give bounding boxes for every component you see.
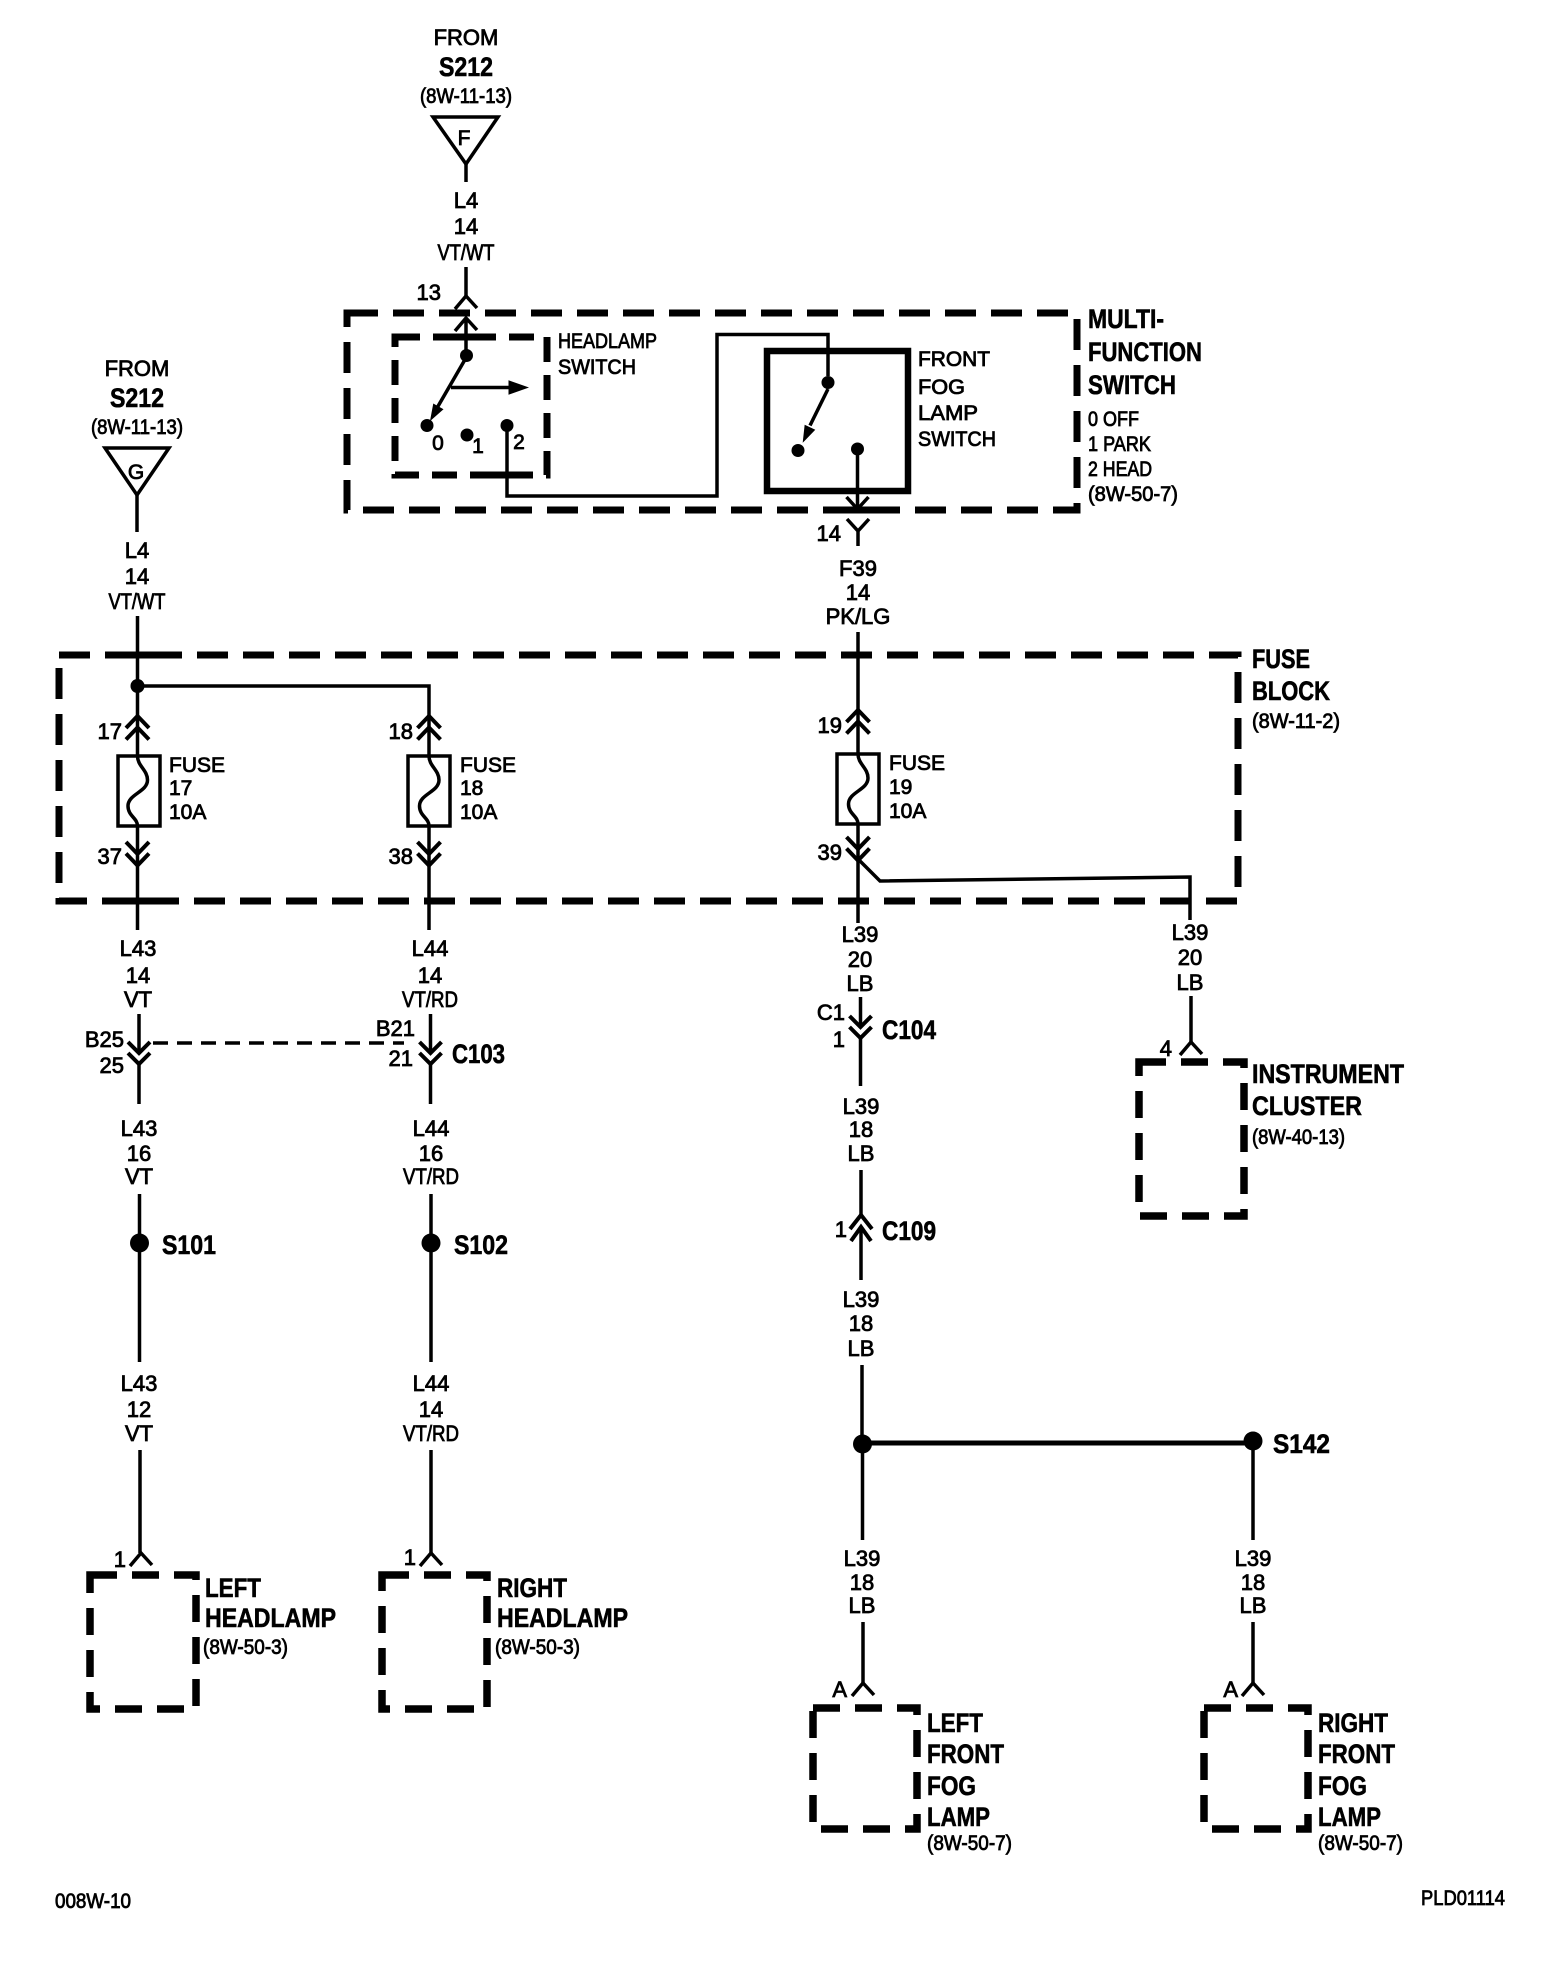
svg-text:FUSE: FUSE xyxy=(889,752,945,775)
svg-text:1: 1 xyxy=(835,1217,847,1242)
svg-text:MULTI-: MULTI- xyxy=(1088,304,1164,334)
svg-text:FROM: FROM xyxy=(434,25,499,50)
svg-text:21: 21 xyxy=(389,1046,413,1071)
right front fog lamp dashed box xyxy=(1204,1708,1308,1829)
splice S142 xyxy=(1244,1432,1263,1451)
off-page connector triangle G xyxy=(105,448,169,495)
svg-text:FOG: FOG xyxy=(918,376,965,399)
pin 13 arrowhead into switch xyxy=(455,318,477,350)
svg-text:VT/RD: VT/RD xyxy=(402,987,458,1012)
fuse cavity 18 chevrons xyxy=(418,716,441,740)
svg-text:L43: L43 xyxy=(121,1371,158,1396)
svg-text:14: 14 xyxy=(454,214,478,239)
contact 1 xyxy=(461,429,474,442)
svg-text:1: 1 xyxy=(472,435,484,458)
svg-text:LEFT: LEFT xyxy=(927,1708,983,1738)
svg-text:19: 19 xyxy=(889,776,912,799)
fuse cavity 17 chevrons xyxy=(126,716,149,740)
svg-text:FROM: FROM xyxy=(105,356,170,381)
svg-text:0: 0 xyxy=(432,432,444,455)
wire to right fog lamp xyxy=(1251,1622,1255,1683)
connector fork pin 1 (left headlamp) xyxy=(130,1553,152,1566)
svg-text:VT/WT: VT/WT xyxy=(438,240,495,265)
svg-text:LB: LB xyxy=(848,1336,875,1361)
svg-text:(8W-11-13): (8W-11-13) xyxy=(420,85,512,108)
svg-text:12: 12 xyxy=(127,1397,151,1422)
wire junction to S142 xyxy=(863,1441,1254,1446)
svg-text:FUSE: FUSE xyxy=(1252,644,1310,674)
svg-text:FRONT: FRONT xyxy=(927,1739,1004,1769)
svg-text:18: 18 xyxy=(1241,1570,1265,1595)
svg-text:17: 17 xyxy=(98,719,122,744)
svg-text:FOG: FOG xyxy=(927,1771,976,1801)
fuse F19 xyxy=(837,754,879,824)
connector C103 dashed link xyxy=(153,1041,404,1045)
wire into multi-function switch xyxy=(464,267,468,296)
svg-text:L39: L39 xyxy=(843,1287,880,1312)
fuse F18 xyxy=(408,756,450,826)
svg-text:HEADLAMP: HEADLAMP xyxy=(497,1603,628,1633)
svg-text:L4: L4 xyxy=(454,188,478,213)
wire below S101 xyxy=(138,1252,142,1362)
wire down to fuse 17 xyxy=(136,686,140,756)
svg-text:A: A xyxy=(832,1677,847,1702)
front fog lamp switch solid box xyxy=(767,351,908,491)
svg-text:C109: C109 xyxy=(882,1216,936,1246)
wire to splice junction xyxy=(860,1365,864,1436)
svg-text:INSTRUMENT: INSTRUMENT xyxy=(1252,1059,1404,1089)
multi-function switch dashed box xyxy=(347,313,1077,510)
svg-text:18: 18 xyxy=(849,1311,873,1336)
svg-text:(8W-50-3): (8W-50-3) xyxy=(495,1636,580,1659)
wire below S142 to right fog lamp xyxy=(1251,1450,1255,1540)
svg-text:L4: L4 xyxy=(125,538,149,563)
dash patch headlamp switch box top at pin 13 xyxy=(449,334,485,341)
wire below B25 xyxy=(137,1064,141,1104)
svg-text:A: A xyxy=(1223,1677,1238,1702)
right headlamp dashed box xyxy=(382,1575,487,1709)
connector pin chevrons C109 xyxy=(850,1215,872,1241)
wire to instrument cluster xyxy=(1189,996,1193,1042)
wire to left fog lamp xyxy=(861,1622,865,1683)
splice S101 xyxy=(130,1234,149,1253)
wire below fuse 18 xyxy=(427,826,431,930)
svg-text:PK/LG: PK/LG xyxy=(826,604,891,629)
wire below C109 xyxy=(859,1227,863,1280)
contact 0 xyxy=(421,419,434,432)
connector fork pin 1 (right headlamp) xyxy=(420,1553,442,1566)
wire below fuse 19 xyxy=(856,824,860,923)
left front fog lamp dashed box xyxy=(813,1708,917,1829)
svg-text:BLOCK: BLOCK xyxy=(1252,676,1330,706)
svg-text:2 HEAD: 2 HEAD xyxy=(1088,458,1152,481)
wire from contact 2 to fog lamp switch xyxy=(507,335,828,497)
dash patch fuse block bottom at left wire xyxy=(117,898,159,905)
svg-text:LB: LB xyxy=(847,971,874,996)
svg-text:10A: 10A xyxy=(889,800,926,823)
svg-text:LB: LB xyxy=(849,1593,876,1618)
svg-text:VT/RD: VT/RD xyxy=(403,1421,459,1446)
wire branch to instrument cluster feed xyxy=(860,861,1190,920)
svg-text:CLUSTER: CLUSTER xyxy=(1252,1091,1362,1121)
svg-text:LB: LB xyxy=(848,1141,875,1166)
svg-text:39: 39 xyxy=(818,840,842,865)
svg-text:SWITCH: SWITCH xyxy=(918,428,996,451)
wire to splice S101 xyxy=(138,1194,142,1235)
svg-text:18: 18 xyxy=(460,777,483,800)
wire to connector C109 xyxy=(859,1170,863,1215)
fog switch left contact xyxy=(792,444,805,457)
svg-text:14: 14 xyxy=(418,963,442,988)
svg-text:2: 2 xyxy=(513,431,525,454)
fuse block cavity 38 chevrons xyxy=(418,842,441,866)
svg-text:SWITCH: SWITCH xyxy=(558,356,636,379)
svg-text:(8W-50-7): (8W-50-7) xyxy=(1318,1832,1403,1855)
svg-text:FOG: FOG xyxy=(1318,1771,1367,1801)
svg-text:(8W-40-13): (8W-40-13) xyxy=(1252,1126,1345,1149)
fuse F17 xyxy=(118,756,160,826)
svg-text:14: 14 xyxy=(125,564,149,589)
svg-text:16: 16 xyxy=(127,1141,151,1166)
left headlamp dashed box xyxy=(90,1575,196,1709)
svg-text:LB: LB xyxy=(1240,1593,1267,1618)
svg-text:RIGHT: RIGHT xyxy=(1318,1708,1388,1738)
connector pin chevrons C104 xyxy=(850,1016,872,1038)
svg-text:10A: 10A xyxy=(460,801,497,824)
svg-text:LEFT: LEFT xyxy=(205,1573,261,1603)
svg-text:LAMP: LAMP xyxy=(918,402,978,425)
svg-text:17: 17 xyxy=(169,777,192,800)
svg-text:S212: S212 xyxy=(439,52,493,82)
fuse block cavity 37 chevrons xyxy=(126,842,149,866)
connector fork pin 4 (instrument cluster) xyxy=(1180,1042,1202,1055)
svg-text:VT/WT: VT/WT xyxy=(109,589,166,614)
svg-text:(8W-50-3): (8W-50-3) xyxy=(203,1636,288,1659)
svg-text:RIGHT: RIGHT xyxy=(497,1573,567,1603)
svg-text:1: 1 xyxy=(114,1547,126,1572)
dash patch fuse block top at left wire xyxy=(115,652,160,659)
splice junction in fuse block xyxy=(131,679,145,693)
headlamp switch common contact xyxy=(460,349,473,362)
wire into fuse 19 xyxy=(856,632,860,754)
svg-text:L39: L39 xyxy=(1172,920,1209,945)
svg-text:18: 18 xyxy=(849,1117,873,1142)
fog switch movable blade xyxy=(810,389,828,426)
wire from triangle G xyxy=(135,495,139,532)
svg-text:20: 20 xyxy=(1178,945,1202,970)
svg-text:FUNCTION: FUNCTION xyxy=(1088,337,1202,367)
connector fork pin 13 xyxy=(455,296,477,309)
wire into fuse block xyxy=(136,616,140,686)
svg-text:B25: B25 xyxy=(85,1027,124,1052)
svg-text:FUSE: FUSE xyxy=(169,754,225,777)
svg-text:L43: L43 xyxy=(121,1116,158,1141)
svg-text:SWITCH: SWITCH xyxy=(1088,370,1176,400)
svg-text:L39: L39 xyxy=(842,922,879,947)
wire from triangle F xyxy=(464,164,468,182)
wire to connector C104 xyxy=(859,997,863,1025)
svg-text:VT: VT xyxy=(125,1164,153,1189)
svg-text:FRONT: FRONT xyxy=(918,348,990,371)
svg-text:14: 14 xyxy=(817,521,841,546)
connector fork pin A (right fog lamp) xyxy=(1242,1683,1264,1696)
wire to connector B25 xyxy=(137,1014,141,1051)
svg-text:(8W-50-7): (8W-50-7) xyxy=(1088,483,1178,506)
fuse block dashed box xyxy=(59,655,1238,901)
fuse block cavity 39 chevrons xyxy=(847,837,870,861)
connector fork pin A (left fog lamp) xyxy=(852,1683,874,1696)
wire to right headlamp xyxy=(429,1450,433,1553)
svg-text:(8W-11-13): (8W-11-13) xyxy=(91,416,183,439)
svg-text:HEADLAMP: HEADLAMP xyxy=(558,330,657,353)
svg-text:L43: L43 xyxy=(120,936,157,961)
off-page connector triangle F xyxy=(433,117,498,164)
svg-text:LB: LB xyxy=(1177,970,1204,995)
svg-text:S142: S142 xyxy=(1273,1429,1330,1459)
svg-text:C1: C1 xyxy=(817,1000,845,1025)
wire to connector C103 xyxy=(429,1014,433,1051)
svg-text:FRONT: FRONT xyxy=(1318,1739,1395,1769)
svg-text:PLD01114: PLD01114 xyxy=(1421,1887,1505,1910)
pin 14 arrowhead out of switch xyxy=(847,497,869,509)
splice S102 xyxy=(422,1234,441,1253)
wire to left headlamp xyxy=(138,1450,142,1553)
svg-text:20: 20 xyxy=(848,947,872,972)
svg-text:VT: VT xyxy=(124,987,152,1012)
svg-text:L44: L44 xyxy=(413,1116,450,1141)
svg-text:13: 13 xyxy=(417,280,441,305)
svg-text:0 OFF: 0 OFF xyxy=(1088,408,1139,431)
fog switch common contact xyxy=(822,376,835,389)
svg-text:S212: S212 xyxy=(110,383,164,413)
svg-text:G: G xyxy=(128,461,144,484)
svg-text:(8W-11-2): (8W-11-2) xyxy=(1252,710,1340,733)
svg-text:HEADLAMP: HEADLAMP xyxy=(205,1603,336,1633)
svg-text:VT/RD: VT/RD xyxy=(403,1164,459,1189)
svg-text:LAMP: LAMP xyxy=(1318,1802,1381,1832)
splice junction dot xyxy=(853,1435,872,1454)
svg-text:008W-10: 008W-10 xyxy=(55,1890,131,1913)
wire below C103 xyxy=(429,1064,433,1104)
rotation direction arrow xyxy=(451,386,509,390)
instrument cluster dashed box xyxy=(1139,1062,1244,1216)
svg-text:F39: F39 xyxy=(839,556,877,581)
svg-text:16: 16 xyxy=(419,1141,443,1166)
svg-text:18: 18 xyxy=(389,719,413,744)
wire from fog switch output xyxy=(856,455,860,508)
wire below S102 xyxy=(429,1252,433,1362)
svg-text:37: 37 xyxy=(98,844,122,869)
svg-text:L39: L39 xyxy=(843,1094,880,1119)
dash patch headlamp switch box bottom at contact 2 wire xyxy=(489,472,525,479)
svg-text:1: 1 xyxy=(404,1545,416,1570)
svg-text:L39: L39 xyxy=(844,1546,881,1571)
svg-text:C104: C104 xyxy=(882,1015,936,1045)
svg-text:(8W-50-7): (8W-50-7) xyxy=(927,1832,1012,1855)
svg-text:10A: 10A xyxy=(169,801,206,824)
wire junction to fuse 18 xyxy=(138,686,430,716)
svg-text:C103: C103 xyxy=(452,1039,505,1069)
connector fork pin 14 xyxy=(847,519,869,546)
svg-text:B21: B21 xyxy=(376,1016,415,1041)
dash patch MFS bottom at fog switch output xyxy=(836,507,880,514)
headlamp switch movable blade xyxy=(437,357,467,408)
svg-text:L44: L44 xyxy=(412,936,449,961)
svg-text:L44: L44 xyxy=(413,1371,450,1396)
headlamp switch inner dashed box xyxy=(395,337,547,475)
svg-text:LAMP: LAMP xyxy=(927,1802,990,1832)
connector pin 21 chevrons C103 xyxy=(420,1042,442,1064)
connector pin B25 chevrons xyxy=(128,1042,150,1064)
svg-text:F: F xyxy=(458,127,471,150)
fuse cavity 19 chevrons xyxy=(847,710,870,734)
svg-text:38: 38 xyxy=(389,844,413,869)
svg-text:VT: VT xyxy=(125,1421,153,1446)
svg-text:FUSE: FUSE xyxy=(460,754,516,777)
svg-text:1: 1 xyxy=(833,1027,845,1052)
wire down to fuse 18 xyxy=(427,716,431,756)
fog switch output contact xyxy=(851,443,864,456)
wire below junction to left fog lamp xyxy=(861,1453,865,1540)
svg-text:S102: S102 xyxy=(454,1230,508,1260)
wire below fuse 17 xyxy=(136,826,140,930)
wire to splice S102 xyxy=(429,1194,433,1235)
svg-text:18: 18 xyxy=(850,1570,874,1595)
svg-text:4: 4 xyxy=(1160,1036,1172,1061)
svg-text:19: 19 xyxy=(818,713,842,738)
svg-text:14: 14 xyxy=(419,1397,443,1422)
svg-text:1 PARK: 1 PARK xyxy=(1088,433,1151,456)
svg-text:L39: L39 xyxy=(1235,1546,1272,1571)
svg-text:S101: S101 xyxy=(162,1230,216,1260)
wire below C104 xyxy=(859,1038,863,1086)
contact 2 xyxy=(501,419,514,432)
svg-text:25: 25 xyxy=(100,1053,124,1078)
svg-text:14: 14 xyxy=(846,580,870,605)
svg-text:14: 14 xyxy=(126,963,150,988)
